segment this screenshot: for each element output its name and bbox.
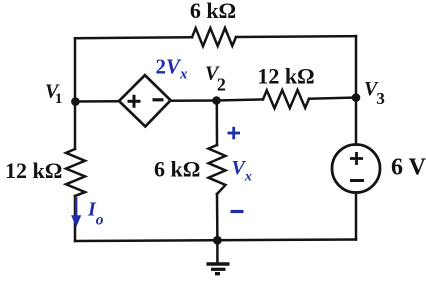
plus polarity mark above Vx (blue) — [228, 127, 241, 140]
wire V1 down to left resistor — [74, 102, 77, 150]
minus sign inside dependent source — [153, 98, 164, 101]
wire middle resistor to bottom node — [216, 194, 219, 240]
wire top left segment — [75, 36, 192, 39]
svg-text:V3: V3 — [364, 78, 385, 108]
resistor 6 kOhm (middle) — [209, 145, 226, 194]
plus sign inside 6V source — [350, 152, 363, 165]
svg-text:6 kΩ: 6 kΩ — [154, 157, 200, 182]
ground symbol — [207, 264, 230, 274]
wire 6V source down to bottom wire — [355, 193, 358, 240]
svg-text:12 kΩ: 12 kΩ — [5, 158, 62, 183]
wire V3 down to 6V source — [355, 98, 358, 145]
wire bottom — [75, 240, 356, 242]
wire top right segment — [236, 35, 356, 38]
voltage source 6V (circle) — [332, 145, 380, 193]
svg-text:V1: V1 — [45, 81, 62, 108]
bottom ground node junction dot — [213, 236, 222, 245]
minus polarity mark below Vx (blue) — [231, 210, 244, 213]
current arrow Io (blue) — [72, 197, 81, 226]
dependent source 2Vx (diamond) — [119, 75, 171, 126]
plus sign inside dependent source — [128, 95, 141, 108]
resistor 12 kOhm (left) — [66, 149, 85, 196]
svg-text:Vx: Vx — [232, 157, 252, 185]
wire 12k resistor to V3 — [309, 98, 356, 99]
svg-text:6 V: 6 V — [391, 155, 426, 181]
wire dependent source to V2 — [171, 99, 217, 102]
node V1 junction dot — [71, 97, 80, 106]
wire V2 down to middle resistor — [216, 101, 219, 146]
svg-text:V2: V2 — [205, 63, 226, 95]
wire left resistor to bottom-left corner — [74, 196, 77, 241]
svg-text:2Vx: 2Vx — [156, 55, 189, 83]
wire V1 to dependent source — [75, 100, 119, 103]
minus sign inside 6V source — [350, 179, 364, 182]
node V2 junction dot — [212, 96, 221, 105]
ground stub — [216, 240, 219, 262]
resistor 12 kOhm (middle right) — [263, 90, 309, 108]
svg-text:12 kΩ: 12 kΩ — [257, 64, 314, 89]
wire top-right vertical (down to V3) — [355, 36, 358, 97]
resistor 6 kOhm (top) — [192, 28, 236, 46]
node V3 junction dot — [352, 93, 361, 102]
svg-text:Io: Io — [87, 199, 104, 229]
svg-text:6 kΩ: 6 kΩ — [190, 0, 236, 23]
wire top-left vertical (V1 up to top wire) — [74, 38, 77, 101]
wire V2 to 12k resistor — [217, 99, 264, 100]
